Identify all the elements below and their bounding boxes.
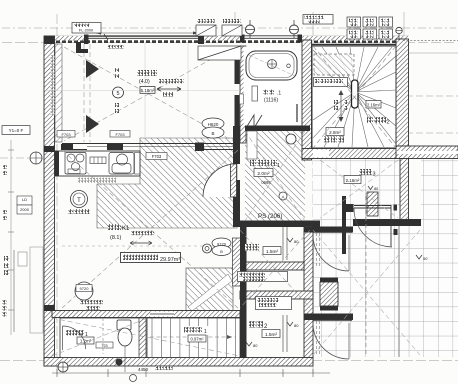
svg-text:F703: F703 xyxy=(152,154,162,159)
svg-text:PS (206): PS (206) xyxy=(258,213,282,220)
svg-text:2: 2 xyxy=(387,120,390,126)
svg-text:723: 723 xyxy=(101,344,107,348)
svg-text:Y1=0 F: Y1=0 F xyxy=(9,128,24,133)
svg-text:50: 50 xyxy=(423,256,428,261)
svg-text:2.16m²: 2.16m² xyxy=(367,103,381,108)
svg-text:F703: F703 xyxy=(115,132,125,137)
svg-text:H620: H620 xyxy=(208,122,219,127)
svg-text:80: 80 xyxy=(253,343,258,348)
svg-text:T: T xyxy=(77,198,81,204)
svg-text:A: A xyxy=(281,194,284,199)
svg-text:(4.0): (4.0) xyxy=(139,79,150,85)
svg-text:LD: LD xyxy=(22,197,27,202)
svg-text:K1: K1 xyxy=(122,226,130,232)
svg-text:2.0m²: 2.0m² xyxy=(257,171,270,177)
svg-text:80: 80 xyxy=(294,323,299,328)
svg-text:B: B xyxy=(220,249,223,254)
svg-text:80: 80 xyxy=(374,187,378,191)
svg-text:1: 1 xyxy=(277,163,280,169)
svg-text:0698: 0698 xyxy=(261,180,271,185)
svg-text:2.8m²: 2.8m² xyxy=(329,130,341,135)
svg-text:0.97m²: 0.97m² xyxy=(190,337,204,342)
svg-text:F703: F703 xyxy=(61,132,71,137)
svg-text:4450: 4450 xyxy=(138,367,149,372)
svg-text:.1: .1 xyxy=(277,91,281,97)
svg-text:5.18m²: 5.18m² xyxy=(141,88,155,93)
svg-text:1.5m²: 1.5m² xyxy=(265,332,278,338)
svg-text:9720: 9720 xyxy=(80,286,90,291)
svg-text:(8.1): (8.1) xyxy=(110,235,121,241)
svg-text:(1116): (1116) xyxy=(264,98,278,104)
svg-text:FL-2000: FL-2000 xyxy=(79,29,93,33)
svg-text:9720: 9720 xyxy=(217,242,227,247)
svg-text:29.97m²: 29.97m² xyxy=(160,257,180,263)
svg-text:2000: 2000 xyxy=(20,207,30,212)
svg-text:5: 5 xyxy=(116,91,119,97)
svg-text:B: B xyxy=(211,131,214,136)
svg-text:1.5m²: 1.5m² xyxy=(266,249,279,255)
svg-text:3: 3 xyxy=(373,172,376,178)
svg-text:1: 1 xyxy=(204,329,207,335)
